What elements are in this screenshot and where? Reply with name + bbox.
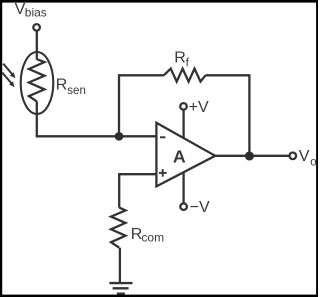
svg-text:−V: −V [190,199,210,216]
label R_sen [56,77,86,98]
svg-text:bias: bias [25,6,47,20]
wire noninverting input left and down to R_com [119,174,156,207]
resistor R_f (zigzag) [164,69,206,82]
label Vo [299,148,317,168]
terminal Vbias [33,24,40,31]
label Vbias [15,1,47,20]
op-amp minus pin mark [160,136,165,138]
label R_f [174,50,189,70]
wire feedback branch: up from node, right to R_f [119,75,164,136]
resistor R_com (zigzag) [111,208,126,248]
svg-text:+V: +V [189,99,209,116]
terminal Vo [290,153,297,160]
node junction at inverting input [115,132,124,141]
svg-text:com: com [141,231,164,245]
svg-text:R: R [174,50,186,67]
terminal -V [180,203,187,210]
light arrow 1 [3,64,15,79]
svg-text:o: o [310,157,316,169]
wire R_com to ground [119,248,121,282]
op-amp U1 triangle [156,123,215,187]
op-amp plus pin mark [159,169,167,177]
wire from R_sen down and right to inverting input [37,101,157,136]
wire from R_f right, down to output node [206,75,250,156]
svg-text:sen: sen [67,85,86,97]
terminal +V [180,103,187,110]
photoresistor envelope ellipse [21,52,54,114]
label R_com [131,226,164,245]
wire from Vbias terminal down into photoresistor [36,31,38,60]
resistor R_sen (photoresistor zigzag) [29,59,45,101]
ground [109,283,132,294]
svg-text:V: V [299,148,310,165]
svg-text:A: A [173,146,186,166]
wire +V terminal through op-amp to -V terminal [182,110,184,203]
svg-text:R: R [56,77,68,94]
wire op-amp output to Vo terminal [215,155,288,157]
node junction at output [245,151,254,160]
light arrow 2 [2,73,14,88]
